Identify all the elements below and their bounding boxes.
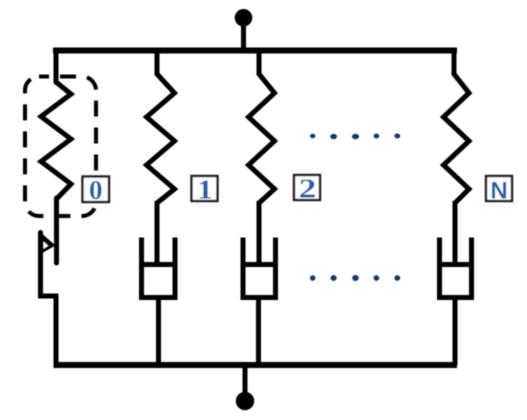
dashpot N cylinder [440, 238, 472, 298]
wire spring 0 lower lead [54, 198, 59, 263]
top terminal node [235, 9, 253, 50]
label N [486, 176, 512, 205]
wire dashpot N to bottom bus [453, 297, 458, 365]
spring 1 [147, 48, 175, 203]
wire spring 1 to dashpot 1 [155, 201, 160, 263]
dashed box around spring 0 [25, 77, 96, 217]
dashpot 1 cylinder [142, 238, 176, 298]
bottom terminal node [236, 365, 254, 410]
dashpot 1 piston [141, 262, 174, 267]
svg-text:0: 0 [89, 175, 103, 205]
spring 2 [249, 48, 275, 203]
spring N [444, 48, 470, 203]
label 2 [294, 173, 320, 203]
svg-text:N: N [490, 178, 507, 205]
slider contact arrow (branch 0) [40, 232, 56, 255]
wire spring N to dashpot N [453, 201, 458, 263]
label 1 [192, 175, 218, 205]
wire top bus [53, 48, 457, 54]
wire dashpot 1 to bottom bus [156, 297, 161, 365]
wire spring 2 to dashpot 2 [257, 201, 262, 263]
dashpot 2 cylinder [243, 238, 276, 298]
wire slider branch 0 to bottom bus [41, 233, 57, 366]
dashpot N piston [439, 262, 472, 267]
ellipsis dots upper row [310, 134, 400, 140]
label 0 [83, 175, 110, 205]
wire dashpot 2 to bottom bus [256, 297, 261, 365]
ellipsis dots lower row [310, 275, 400, 281]
spring 0 [41, 48, 71, 199]
wire bottom bus [54, 362, 458, 368]
dashpot 2 piston [243, 262, 276, 267]
svg-text:2: 2 [299, 173, 317, 203]
svg-text:1: 1 [197, 175, 212, 205]
